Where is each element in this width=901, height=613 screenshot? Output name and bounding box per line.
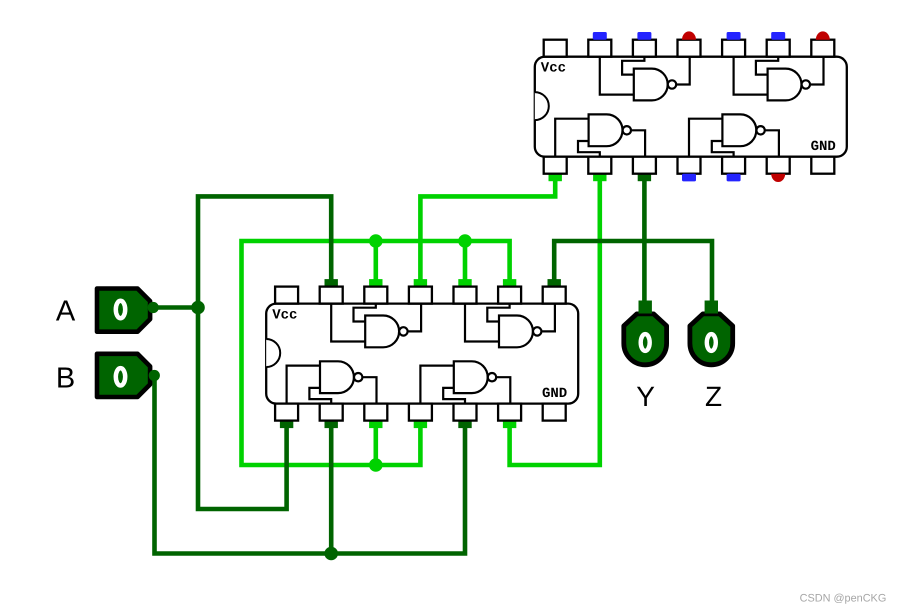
state mark (red) above U1 top pin 4 xyxy=(682,31,696,39)
wire: net A branch to b1 xyxy=(198,308,287,510)
IC U2 top pin 6 xyxy=(498,287,521,304)
IC U2 NAND gate 3 xyxy=(287,361,377,403)
IC U2 NAND gate 2 xyxy=(465,304,555,348)
wire: net2 lower t4 to upper b1 xyxy=(420,174,555,287)
node label Z xyxy=(705,381,722,412)
IC U2 bottom pin 7 xyxy=(543,404,566,421)
wire stub at upper chip bottom pin x=600 xyxy=(593,173,606,182)
IC U1 top pin 7 xyxy=(811,40,834,57)
svg-text:Vcc: Vcc xyxy=(541,61,566,77)
state mark (blue) above U1 top pin 6 xyxy=(771,32,785,40)
IC U1 bottom pin 5 xyxy=(722,157,745,174)
IC U1 NAND gate 4 xyxy=(689,114,779,156)
wire stub at lower chip top pin x=554 xyxy=(548,279,561,288)
IC U1 NAND gate 3 xyxy=(555,114,645,156)
wire stub at upper chip bottom pin x=644 xyxy=(638,173,651,182)
wire stub at lower chip top pin x=510 xyxy=(503,279,516,288)
IC U2 NAND gate 1 xyxy=(331,304,421,348)
wire junction at net1 b3 xyxy=(369,458,383,472)
wire stub at upper chip bottom pin x=555 xyxy=(549,173,562,182)
IC U1 bottom pin 1 xyxy=(544,157,567,174)
IC U2 NAND gate 4 xyxy=(420,361,510,403)
IC U2 Vcc label xyxy=(272,308,297,324)
svg-text:Vcc: Vcc xyxy=(272,308,297,324)
IC U1 bottom pin 6 xyxy=(767,157,790,174)
IC U1 NAND gate 1 xyxy=(600,57,690,101)
svg-text:GND: GND xyxy=(811,139,836,155)
svg-text:B: B xyxy=(56,363,75,395)
wire junction at net B xyxy=(324,547,338,561)
svg-text:CSDN @penCKG: CSDN @penCKG xyxy=(800,593,887,605)
node label A xyxy=(56,295,76,327)
state mark (blue) above U1 top pin 5 xyxy=(727,32,741,40)
state mark (red) below U1 bottom pin 6 xyxy=(771,174,785,182)
IC U2 bottom pin 1 xyxy=(275,404,298,421)
IC U2 pin notch xyxy=(266,339,280,367)
IC U1 Vcc label xyxy=(541,61,566,77)
IC U2 7400 quad NAND body xyxy=(266,304,578,404)
wire junction at net1 t3 xyxy=(369,234,383,248)
IC U2 bottom pin 3 xyxy=(364,404,387,421)
IC U2 bottom pin 4 xyxy=(409,404,432,421)
wire: net B pin B to b5 xyxy=(155,376,466,554)
output pin Z xyxy=(690,301,733,365)
wire stub at lower chip top pin x=465 xyxy=(458,279,471,288)
state mark (blue) below U1 bottom pin 5 xyxy=(727,174,741,182)
IC U2 top pin 1 xyxy=(275,287,298,304)
IC U1 top pin 3 xyxy=(633,40,656,57)
wire: net Z lower t7 to pin Z xyxy=(554,241,712,306)
IC U1 top pin 4 xyxy=(678,40,701,57)
svg-text:A: A xyxy=(56,295,76,327)
wire junction at net1 t5 xyxy=(458,234,472,248)
node label Y xyxy=(636,381,655,412)
IC U2 top pin 2 xyxy=(320,287,343,304)
svg-text:Z: Z xyxy=(705,381,722,412)
wire: net Y upper b3 to pin Y xyxy=(642,174,647,306)
wire stub at lower chip bottom pin x=510 xyxy=(503,420,516,429)
IC U1 bottom pin 3 xyxy=(633,157,656,174)
IC U1 bottom pin 4 xyxy=(678,157,701,174)
IC U2 bottom pin 6 xyxy=(498,404,521,421)
node label B xyxy=(56,363,75,395)
output pin Y xyxy=(624,301,667,365)
wire: net B branch to b2 xyxy=(329,421,334,554)
wire stub at lower chip bottom pin x=420 xyxy=(414,420,427,429)
wire: net1 branch to t3 xyxy=(373,241,378,287)
state mark (blue) above U1 top pin 3 xyxy=(637,32,651,40)
wire: net1 loop b4 to left bypass to t6 xyxy=(242,241,510,465)
wire stub at lower chip bottom pin x=331 xyxy=(325,420,338,429)
IC U1 top pin 6 xyxy=(767,40,790,57)
IC U1 GND label xyxy=(811,139,836,155)
IC U1 top pin 5 xyxy=(722,40,745,57)
IC U1 pin notch xyxy=(535,92,549,120)
svg-text:GND: GND xyxy=(542,386,567,402)
watermark xyxy=(800,593,887,605)
svg-text:Y: Y xyxy=(636,381,655,412)
wire: net3 lower b6 to upper b2 xyxy=(510,174,600,465)
IC U1 bottom pin 7 xyxy=(811,157,834,174)
IC U1 top pin 2 xyxy=(588,40,611,57)
wire stub at lower chip top pin x=376 xyxy=(369,279,382,288)
IC U2 top pin 3 xyxy=(364,287,387,304)
IC U2 GND label xyxy=(542,386,567,402)
wire stub at lower chip bottom pin x=287 xyxy=(280,420,293,429)
IC U1 7400 quad NAND body xyxy=(535,57,847,157)
wire: net1 branch to b3 xyxy=(373,421,378,465)
IC U2 top pin 4 xyxy=(409,287,432,304)
wire stub at lower chip bottom pin x=376 xyxy=(369,420,382,429)
state mark (red) above U1 top pin 7 xyxy=(816,31,830,39)
wire stub at lower chip top pin x=331 xyxy=(325,279,338,288)
IC U2 bottom pin 2 xyxy=(320,404,343,421)
input pin B xyxy=(97,354,160,397)
IC U1 NAND gate 2 xyxy=(734,57,824,101)
wire junction at net A xyxy=(191,301,205,315)
IC U1 bottom pin 2 xyxy=(588,157,611,174)
wire stub at lower chip top pin x=420 xyxy=(414,279,427,288)
wire: net A pin A to t2 xyxy=(153,196,331,307)
state mark (blue) above U1 top pin 2 xyxy=(593,32,607,40)
wire stub at lower chip bottom pin x=465 xyxy=(458,420,471,429)
state mark (blue) below U1 bottom pin 4 xyxy=(682,174,696,182)
IC U2 top pin 5 xyxy=(454,287,477,304)
wire: net1 branch to t5 xyxy=(463,241,468,287)
IC U2 bottom pin 5 xyxy=(454,404,477,421)
IC U2 top pin 7 xyxy=(543,287,566,304)
IC U1 top pin 1 xyxy=(544,40,567,57)
input pin A xyxy=(97,289,159,332)
